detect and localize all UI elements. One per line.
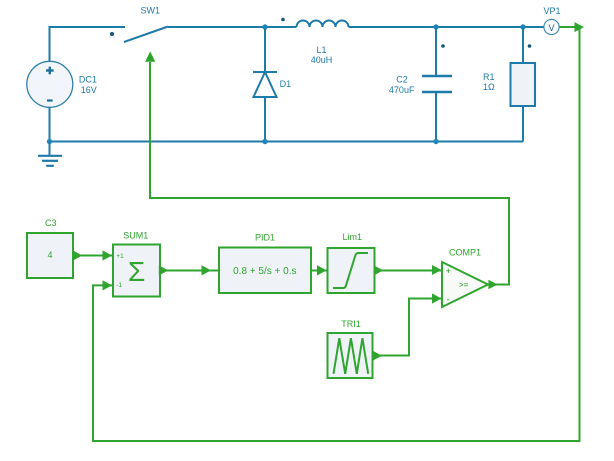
- svg-text:-: -: [447, 295, 450, 305]
- svg-text:1Ω: 1Ω: [483, 82, 495, 92]
- node bottom D1: [262, 139, 267, 144]
- svg-text:L1: L1: [316, 45, 326, 55]
- svg-text:D1: D1: [280, 79, 292, 89]
- svg-text:PID1: PID1: [255, 233, 275, 243]
- wire Lim1 to COMP1 plus input: [374, 265, 442, 276]
- svg-text:+: +: [446, 266, 451, 276]
- wire COMP1 output to SW1 gate: [145, 51, 509, 289]
- node top of D1: [262, 24, 267, 29]
- DC source DC1: [27, 61, 97, 107]
- voltmeter VP1: [543, 6, 560, 35]
- svg-text:0.8 + 5/s + 0.s: 0.8 + 5/s + 0.s: [233, 266, 296, 277]
- wire top rail SW1 to L1: [168, 26, 297, 28]
- wire SUM1 to PID1: [159, 265, 219, 275]
- svg-text:-1: -1: [116, 282, 122, 289]
- svg-text:Σ: Σ: [128, 256, 145, 287]
- wire top rail left (DC1 to SW1): [50, 27, 126, 62]
- triangle generator TRI1: [328, 319, 373, 378]
- svg-text:VP1: VP1: [543, 6, 560, 16]
- wire top rail L1 to VP1: [349, 26, 545, 28]
- svg-text:C2: C2: [396, 75, 408, 85]
- svg-text:SUM1: SUM1: [123, 231, 148, 241]
- node top of R1: [520, 24, 525, 29]
- svg-text:4: 4: [47, 250, 52, 260]
- svg-text:SW1: SW1: [141, 6, 161, 16]
- resistor R1: [483, 27, 535, 142]
- ground: [38, 142, 62, 166]
- svg-text:470uF: 470uF: [389, 85, 415, 95]
- wire C3 to SUM1: [73, 250, 113, 260]
- wire VP1 output feedback to SUM1 minus input: [93, 22, 584, 441]
- comparator COMP1: [442, 248, 488, 308]
- switch SW1: [110, 6, 168, 42]
- limiter Lim1: [328, 232, 375, 293]
- capacitor C2: [389, 27, 452, 142]
- node bottom DC1: [47, 139, 52, 144]
- svg-text:R1: R1: [483, 72, 495, 82]
- inductor L1: [281, 18, 348, 65]
- constant C3: [27, 218, 73, 278]
- svg-text:TRI1: TRI1: [341, 319, 361, 329]
- wire bottom rail: [50, 141, 524, 143]
- svg-text:>=: >=: [459, 280, 469, 289]
- svg-text:40uH: 40uH: [311, 55, 333, 65]
- wire TRI1 to COMP1 minus input: [373, 293, 443, 360]
- svg-text:Lim1: Lim1: [343, 232, 363, 242]
- PID controller PID1: [219, 233, 311, 293]
- svg-text:V: V: [548, 23, 554, 33]
- svg-text:+1: +1: [116, 253, 124, 260]
- svg-text:C3: C3: [45, 218, 57, 228]
- node bottom C2: [433, 139, 438, 144]
- diode D1: [253, 27, 291, 142]
- wire DC1 bottom: [49, 107, 51, 142]
- wire PID1 to Lim1: [311, 265, 328, 275]
- svg-text:16V: 16V: [81, 85, 97, 95]
- node top of C2: [433, 24, 438, 29]
- svg-text:COMP1: COMP1: [449, 248, 481, 258]
- svg-text:DC1: DC1: [79, 75, 97, 85]
- summer SUM1: [113, 231, 160, 297]
